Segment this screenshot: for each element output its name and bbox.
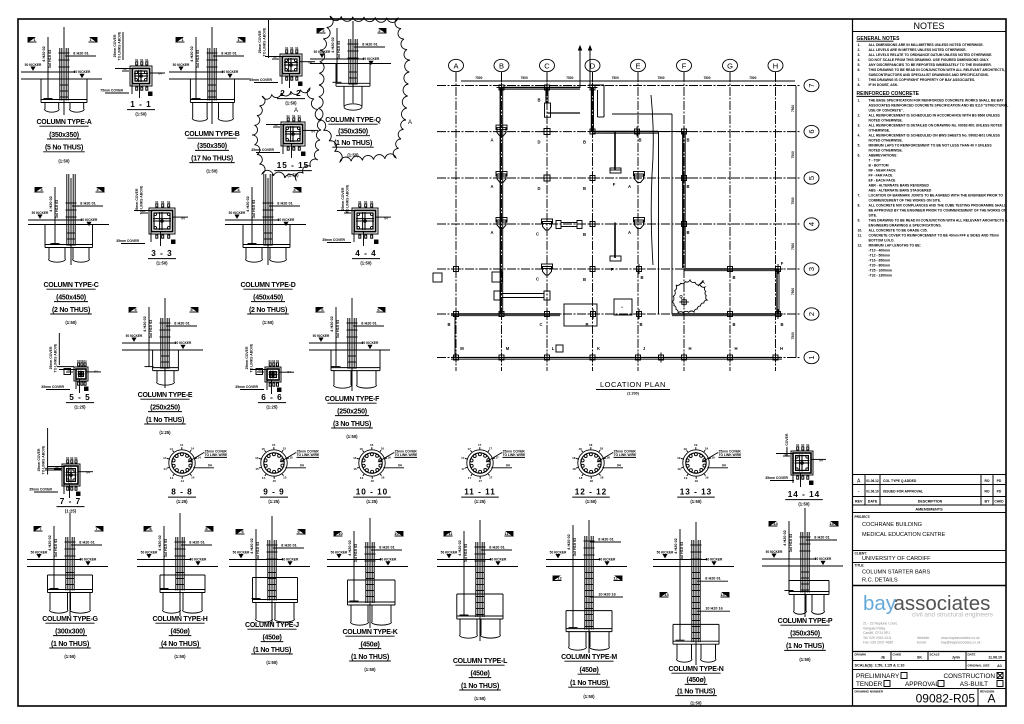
svg-text:COLUMN TYPE-Q: COLUMN TYPE-Q [325,117,381,124]
svg-text:01: 01 [290,46,294,50]
svg-text:7500: 7500 [703,76,710,80]
svg-text:(1 No THUS): (1 No THUS) [570,680,608,687]
svg-text:BY: BY [985,500,991,504]
svg-text:B: B [732,322,735,327]
svg-text:4 - 4: 4 - 4 [355,249,376,258]
svg-text:3xl H10 03: 3xl H10 03 [573,538,577,557]
svg-text:AMENDMENTS: AMENDMENTS [915,508,943,512]
svg-text:MEDICAL EDUCATION CENTRE: MEDICAL EDUCATION CENTRE [862,532,946,538]
svg-text:(450x450): (450x450) [56,294,86,301]
section 2-2 label [277,89,305,106]
svg-text:11.: 11. [858,233,863,237]
column type K label [342,629,397,672]
svg-text:8 H20 01: 8 H20 01 [277,201,292,205]
svg-text:01: 01 [298,114,302,118]
svg-text:16: 16 [353,467,357,471]
general notes text [857,36,1009,277]
svg-text:A: A [628,184,631,189]
svg-text:COLUMN TYPE-P: COLUMN TYPE-P [778,618,833,625]
svg-text:16: 16 [360,447,364,451]
svg-text:14: 14 [191,476,195,480]
svg-text:TO LINKS ABOVE: TO LINKS ABOVE [54,343,58,372]
svg-text:25mm COVER: 25mm COVER [49,346,53,369]
svg-text:17: 17 [478,443,482,447]
svg-text:4 H20 02: 4 H20 02 [158,535,162,550]
svg-text:ALL REINFORCEMENT IS SCHEDULED: ALL REINFORCEMENT IS SCHEDULED ON BWS SH… [869,133,1001,137]
svg-text:7500: 7500 [749,76,756,80]
svg-text:50 KICKER: 50 KICKER [362,341,379,345]
svg-text:COMMENCEMENT OF THE WORKS ON S: COMMENCEMENT OF THE WORKS ON SITE. [869,198,942,202]
svg-text:(2 No THUS): (2 No THUS) [249,307,287,314]
svg-text:ASSOCIATES REINFORCED CONCRETE: ASSOCIATES REINFORCED CONCRETE SPECIFICA… [869,103,1009,107]
column type C label [43,282,98,325]
plan column markers row7 [497,83,598,103]
svg-text:(450ø): (450ø) [262,634,281,641]
svg-text:8 H20 01: 8 H20 01 [73,51,88,55]
section 13-13 detail [677,443,742,483]
svg-text:ABBREVIATIONS:: ABBREVIATIONS: [869,153,898,157]
svg-text:01.06.10: 01.06.10 [866,490,879,494]
svg-text:01: 01 [161,200,165,204]
svg-text:A: A [453,61,458,70]
svg-text:3xl H10 03: 3xl H10 03 [256,542,260,561]
plan column markers row3 [433,261,784,282]
svg-text:1: 1 [807,355,816,359]
svg-text:17: 17 [489,476,493,480]
svg-text:01: 01 [140,58,144,62]
svg-text:25mm COVER: 25mm COVER [135,188,139,211]
svg-text:7500: 7500 [475,76,482,80]
column type G label [42,616,98,659]
svg-text:DATE: DATE [868,500,878,504]
svg-text:(1:50): (1:50) [347,153,359,158]
svg-text:B: B [686,138,689,143]
svg-text:4 H20 02: 4 H20 02 [190,46,194,61]
svg-text:USE OF CONCRETE".: USE OF CONCRETE". [869,108,904,112]
svg-text:2: 2 [807,312,816,316]
svg-text:4 H20 02: 4 H20 02 [458,540,462,555]
svg-text:19: 19 [705,447,709,451]
svg-text:19: 19 [705,476,709,480]
svg-text:01: 01 [135,58,139,62]
svg-text:14: 14 [180,443,184,447]
svg-text:ALL REINFORCEMENT IS DETAILED: ALL REINFORCEMENT IS DETAILED ON DRAWING… [869,123,1003,127]
svg-text:-T16 - 650mm: -T16 - 650mm [869,258,891,262]
svg-text:04: 04 [158,72,162,76]
svg-text:7500: 7500 [791,197,795,204]
svg-text:3xl H10 03: 3xl H10 03 [164,539,168,558]
svg-text:(1:50): (1:50) [287,173,299,178]
svg-text:(1 No THUS): (1 No THUS) [146,417,184,424]
svg-text:TENDER: TENDER [856,681,883,688]
column type L label [453,658,508,701]
svg-text:NOTED OTHERWISE.: NOTED OTHERWISE. [869,118,903,122]
svg-text:COLUMN TYPE-M: COLUMN TYPE-M [561,654,617,661]
svg-text:8 H20 01: 8 H20 01 [221,51,236,55]
svg-text:4 H20 02: 4 H20 02 [567,534,571,549]
svg-text:14: 14 [170,447,174,451]
drawing number box [855,689,996,707]
svg-text:6 - 6: 6 - 6 [261,393,282,402]
svg-text:PD: PD [997,490,1002,494]
svg-text:(5 No THUS): (5 No THUS) [45,145,83,152]
plan wall stub E6 [610,132,621,188]
svg-text:8.: 8. [858,203,861,207]
svg-text:8 H20 01: 8 H20 01 [361,321,376,325]
svg-text:01: 01 [358,200,362,204]
svg-text:(450ø): (450ø) [470,670,489,677]
column type C elevation [28,174,109,265]
svg-text:3xl H10 03: 3xl H10 03 [54,539,58,558]
svg-text:35mm COVER: 35mm COVER [235,385,258,389]
svg-text:19: 19 [695,479,699,483]
plan column grid bubbles top [449,59,784,81]
svg-text:ALL CONCRETE TO BE GRADE C35.: ALL CONCRETE TO BE GRADE C35. [869,228,928,232]
svg-text:COLUMN TYPE-A: COLUMN TYPE-A [36,119,91,126]
svg-text:3xl H10 03: 3xl H10 03 [336,320,340,339]
svg-text:E: E [635,61,640,70]
svg-text:G: G [727,61,733,70]
svg-text:50 KICKER: 50 KICKER [331,550,348,554]
plan wall A2 down to A1 [454,314,456,358]
svg-text:(1:25): (1:25) [366,499,378,504]
svg-text:19: 19 [684,476,688,480]
svg-text:REV: REV [855,500,863,504]
svg-text:3xl H10 03: 3xl H10 03 [680,542,684,561]
svg-text:DESCRIPTION: DESCRIPTION [918,500,943,504]
svg-text:50 KICKER: 50 KICKER [313,334,330,338]
svg-text:01: 01 [145,58,149,62]
svg-text:15: 15 [283,447,287,451]
svg-text:14 - 14: 14 - 14 [788,490,821,499]
svg-text:16: 16 [353,456,357,460]
svg-text:DRAWING NUMBER: DRAWING NUMBER [855,690,884,694]
section 15-15 label [274,161,312,178]
svg-text:(1:50): (1:50) [690,499,702,504]
title panel left border [852,19,854,706]
svg-text:-T25 - 1000mm: -T25 - 1000mm [869,268,893,272]
svg-text:8 H20 01: 8 H20 01 [80,201,95,205]
notes header box [853,21,1006,32]
svg-text:B: B [499,61,504,70]
svg-text:25mm COVER: 25mm COVER [785,433,789,456]
svg-text:5 - 5: 5 - 5 [69,393,90,402]
svg-text:10 H20 16: 10 H20 16 [598,592,616,596]
svg-text:04: 04 [819,459,823,463]
svg-text:OTHERWISE.: OTHERWISE. [869,128,890,132]
svg-text:(1 No THUS): (1 No THUS) [677,688,715,695]
column type F label [325,396,380,439]
svg-text:18: 18 [590,479,594,483]
svg-text:1.: 1. [858,43,861,47]
svg-text:F: F [613,182,616,187]
svg-text:SUBCONTRACTORS AND SPECIALIST: SUBCONTRACTORS AND SPECIALIST DRAWINGS A… [869,73,989,77]
svg-text:B: B [447,322,450,327]
svg-text:SCALE(S): 1:50, 1:25 & 1:10: SCALE(S): 1:50, 1:25 & 1:10 [855,664,905,668]
svg-text:01: 01 [364,200,368,204]
svg-text:3xl H10 03: 3xl H10 03 [337,41,341,60]
svg-text:12: 12 [613,576,618,581]
svg-text:(350x350): (350x350) [790,631,820,638]
svg-text:10 H20 16: 10 H20 16 [705,607,723,611]
section 1-1 detail [100,31,165,98]
svg-text:3xl H10 03: 3xl H10 03 [149,320,153,339]
svg-text:NF - NEAR FACE: NF - NEAR FACE [869,168,897,172]
svg-text:4 H20 02: 4 H20 02 [331,37,335,52]
svg-text:(2 No THUS): (2 No THUS) [52,307,90,314]
svg-text:(1:50): (1:50) [285,101,297,106]
svg-text:15: 15 [262,447,266,451]
svg-text:TO LINKS ABOVE: TO LINKS ABOVE [118,31,122,60]
svg-text:5.: 5. [858,63,861,67]
column type H label [152,616,207,659]
svg-text:50 KICKER: 50 KICKER [80,558,97,562]
svg-text:01: 01 [285,46,289,50]
column type B label [184,131,239,174]
svg-text:7500: 7500 [566,76,573,80]
column type P label [778,618,833,662]
svg-text:B: B [686,184,689,189]
svg-text:TITLE:: TITLE: [855,564,865,568]
svg-text:4 H20 02: 4 H20 02 [348,540,352,555]
plan wall row2 left [451,314,560,316]
svg-text:(1:50): (1:50) [798,502,810,507]
svg-text:3xl H10 03: 3xl H10 03 [252,200,256,219]
column type K elevation [327,518,408,628]
svg-text:3xl H10 03: 3xl H10 03 [196,50,200,69]
svg-text:01: 01 [83,359,87,363]
section 14-14 label [785,490,823,507]
section 11-11 label [461,488,499,505]
svg-text:14: 14 [773,521,778,526]
svg-text:25mm COVER: 25mm COVER [245,346,249,369]
section 13-13 label [677,488,715,505]
svg-text:-T12 - 500mm: -T12 - 500mm [869,253,891,257]
svg-text:COL TYPE Q ADDED: COL TYPE Q ADDED [883,479,917,483]
svg-text:TO LINK WIRE: TO LINK WIRE [719,453,742,457]
svg-text:15: 15 [255,467,259,471]
svg-text:50 KICKER: 50 KICKER [74,70,91,74]
svg-text:TO LINK WIRE: TO LINK WIRE [614,453,637,457]
svg-text:Fax: 029 2037 4680: Fax: 029 2037 4680 [863,641,893,645]
title box [853,564,1006,586]
svg-text:8 - 8: 8 - 8 [171,488,192,497]
svg-text:(1 No THUS): (1 No THUS) [253,647,291,654]
svg-text:8 H20 01: 8 H20 01 [705,577,720,581]
plan wall row1 [451,358,782,360]
svg-text:COLUMN TYPE-D: COLUMN TYPE-D [240,282,295,289]
svg-text:(1:50): (1:50) [58,158,70,163]
plan column markers row5 [490,172,689,192]
svg-text:01: 01 [167,200,171,204]
svg-text:11.08.10: 11.08.10 [988,656,1002,660]
svg-text:(1:25): (1:25) [65,509,77,514]
svg-text:35mm COVER: 35mm COVER [116,239,139,243]
svg-text:(1:25): (1:25) [176,499,188,504]
section 3-3 label [148,249,176,266]
svg-text:50 KICKER: 50 KICKER [25,63,42,67]
svg-text:3.: 3. [858,53,861,57]
svg-text:(1:50): (1:50) [585,499,597,504]
section 3-3 detail [116,185,188,246]
svg-text:04: 04 [181,217,185,221]
svg-text:50 KICKER: 50 KICKER [380,558,397,562]
svg-text:35mm COVER: 35mm COVER [249,78,272,82]
svg-text:COLUMN TYPE-K: COLUMN TYPE-K [342,629,397,636]
svg-text:14: 14 [163,467,167,471]
plan wall stub E4 [610,223,621,273]
svg-text:3.: 3. [858,123,861,127]
column type J elevation [229,516,310,625]
svg-text:(300x300): (300x300) [55,628,85,635]
svg-text:TO LINKS ABOVE: TO LINKS ABOVE [140,185,144,214]
svg-text:(1:50): (1:50) [474,696,486,701]
svg-text:15: 15 [283,476,287,480]
plan row grid bubbles right [804,79,819,363]
svg-text:17: 17 [461,456,465,460]
svg-text:(1:50): (1:50) [156,261,168,266]
svg-text:04: 04 [300,463,304,467]
svg-text:50 KICKER: 50 KICKER [190,558,207,562]
svg-text:50 KICKER: 50 KICKER [81,218,98,222]
svg-text:COLUMN TYPE-N: COLUMN TYPE-N [668,666,723,673]
svg-text:(1:25): (1:25) [266,405,278,410]
svg-text:12 - 12: 12 - 12 [575,488,608,497]
svg-text:3xl H10 03: 3xl H10 03 [48,50,52,69]
svg-text:(1:50): (1:50) [799,657,811,662]
svg-text:R.C. DETAILS: R.C. DETAILS [862,578,898,584]
svg-text:7500: 7500 [791,288,795,295]
svg-text:(1:50): (1:50) [690,701,702,706]
column type N elevation [653,522,734,665]
svg-text:01: 01 [273,55,277,59]
svg-text:17: 17 [468,447,472,451]
svg-text:B: B [537,98,540,103]
section 4-4 label [352,249,380,266]
svg-text:25mm COVER: 25mm COVER [113,34,117,57]
plan column markers row6 [490,125,689,144]
svg-text:B: B [585,322,588,327]
svg-text:H: H [688,346,691,351]
svg-text:(450ø): (450ø) [579,667,598,674]
column type A label [36,119,91,163]
svg-text:16: 16 [381,476,385,480]
svg-text:COLUMN TYPE-L: COLUMN TYPE-L [453,658,508,665]
svg-text:ALL CONCRETE MIX COMPLIANCES A: ALL CONCRETE MIX COMPLIANCES AND THE CUB… [869,203,1007,207]
svg-text:4 H20 02: 4 H20 02 [783,530,787,545]
svg-text:ABS - ALTERNATE BARS STAGGERE: ABS - ALTERNATE BARS STAGGERED [869,188,932,192]
svg-text:ANY DISCREPANCIES TO BE REPORT: ANY DISCREPANCIES TO BE REPORTED IMMEDIA… [869,63,992,67]
svg-text:T - TOP: T - TOP [869,158,882,162]
svg-text:7500: 7500 [521,76,528,80]
svg-text:D: D [537,186,540,191]
svg-text:H: H [773,61,778,70]
svg-text:75mm COVER: 75mm COVER [100,89,123,93]
svg-text:17: 17 [461,467,465,471]
svg-text:(1 No THUS): (1 No THUS) [786,643,824,650]
section 12-12 detail [572,443,637,483]
svg-text:(3 No THUS): (3 No THUS) [333,421,371,428]
svg-text:01: 01 [274,123,278,127]
svg-text:(1 No THUS): (1 No THUS) [51,641,89,648]
svg-text:www.bayassociates.co.uk: www.bayassociates.co.uk [941,636,980,640]
svg-text:50 KICKER: 50 KICKER [175,341,192,345]
svg-text:01: 01 [370,200,374,204]
svg-text:COLUMN TYPE-G: COLUMN TYPE-G [42,616,98,623]
svg-text:(350x350): (350x350) [49,132,79,139]
svg-text:A: A [987,692,995,706]
plan dimension line top [461,76,795,81]
svg-text:F: F [611,267,614,272]
svg-text:M: M [460,346,464,351]
svg-text:9 - 9: 9 - 9 [263,488,284,497]
svg-text:A: A [490,184,493,189]
plan column markers row1 [451,346,783,363]
svg-text:14: 14 [181,479,185,483]
svg-text:THIS DRAWING IS COPYRIGHT PROP: THIS DRAWING IS COPYRIGHT PROPERTY OF BA… [869,78,976,82]
plan wall row7 B-D [502,88,581,90]
revision cloud around column type Q [318,16,412,162]
svg-text:UNIVERSITY OF CARDIFF: UNIVERSITY OF CARDIFF [862,556,931,562]
svg-text:-T20 - 800mm: -T20 - 800mm [869,263,891,267]
svg-text:50 KICKER: 50 KICKER [229,211,246,215]
section 8-8 detail [163,443,228,483]
svg-text:01: 01 [796,443,800,447]
svg-text:(1:25): (1:25) [474,499,486,504]
svg-text:18: 18 [579,476,583,480]
svg-text:ALL REINFORCEMENT IS SCHEDULED: ALL REINFORCEMENT IS SCHEDULED IN ACCORD… [869,113,1001,117]
svg-text:3xl H10 03: 3xl H10 03 [789,534,793,553]
column type E label [138,392,193,435]
svg-text:7: 7 [807,83,816,87]
svg-text:COLUMN TYPE-H: COLUMN TYPE-H [152,616,207,623]
svg-text:25mm COVER: 25mm COVER [258,30,262,53]
svg-text:B: B [639,322,642,327]
svg-text:DO NOT SCALE FROM THIS DRAWING: DO NOT SCALE FROM THIS DRAWING. USE FIGU… [869,58,990,62]
svg-text:(1:50): (1:50) [360,261,372,266]
svg-text:18: 18 [579,447,583,451]
svg-text:AS-BUILT: AS-BUILT [960,681,988,688]
column type D label [240,282,295,325]
svg-text:8 H20 01: 8 H20 01 [598,537,613,541]
scales row [853,661,1006,670]
svg-text:15: 15 [273,479,277,483]
plan label [596,380,670,396]
svg-text:(1:25): (1:25) [268,499,280,504]
svg-text:18: 18 [572,456,576,460]
svg-text:(250x250): (250x250) [337,408,367,415]
svg-text:COLUMN TYPE-J: COLUMN TYPE-J [245,622,299,629]
svg-text:THE BASE SPECIFICATION FOR REI: THE BASE SPECIFICATION FOR REINFORCED CO… [869,98,1005,102]
svg-text:(350x350): (350x350) [197,143,227,150]
svg-text:19: 19 [677,467,681,471]
svg-text:01: 01 [295,46,299,50]
svg-text:BE APPROVED BY THE ENGINEER PR: BE APPROVED BY THE ENGINEER PRIOR TO COM… [869,208,1007,212]
svg-text:50 KICKER: 50 KICKER [222,70,239,74]
svg-text:50 KICKER: 50 KICKER [233,550,250,554]
svg-text:CONSTRUCTION: CONSTRUCTION [944,673,996,680]
svg-text:MINIMUM LAP LENGTHS TO BE:: MINIMUM LAP LENGTHS TO BE: [869,243,921,247]
svg-text:TO LINK WIRE: TO LINK WIRE [395,453,418,457]
svg-text:(1 No THUS): (1 No THUS) [461,683,499,690]
svg-text:18: 18 [589,443,593,447]
svg-text:8 H20 01: 8 H20 01 [489,545,504,549]
svg-text:50 KICKER: 50 KICKER [32,211,49,215]
svg-text:COLUMN TYPE-F: COLUMN TYPE-F [325,396,380,403]
svg-text:-T10 - 400mm: -T10 - 400mm [869,248,891,252]
svg-text:H: H [780,346,783,351]
svg-text:35mm COVER: 35mm COVER [322,238,345,242]
